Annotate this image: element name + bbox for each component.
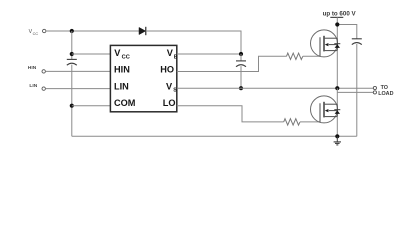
wire LO to gate resistor xyxy=(177,106,284,122)
wire Q2 drain up to VS xyxy=(336,88,338,104)
svg-text:CC: CC xyxy=(33,32,39,36)
wire diode to VB corner xyxy=(146,31,241,54)
svg-text:LIN: LIN xyxy=(114,81,129,91)
junction dot VS switch node xyxy=(335,86,339,90)
resistor R1 high-side gate xyxy=(287,53,303,59)
wire bottom rail xyxy=(72,135,357,137)
wire HIN xyxy=(45,70,110,72)
wire Q1 drain up xyxy=(336,25,338,39)
wire R2 to gate xyxy=(300,121,320,123)
node Vcc label xyxy=(29,29,39,36)
junction dot Vcc rail xyxy=(70,29,74,33)
terminal LOAD xyxy=(373,91,376,94)
svg-text:V: V xyxy=(166,81,173,91)
junction dot ground rail xyxy=(335,134,339,138)
terminal Vcc xyxy=(43,29,46,32)
transistor Q2 low-side MOSFET xyxy=(311,96,341,123)
junction dot C2/VS xyxy=(239,86,243,90)
junction dot 600V xyxy=(335,22,339,26)
svg-text:COM: COM xyxy=(114,98,136,108)
wire LIN xyxy=(45,88,110,90)
wire VB to bootstrap cap xyxy=(240,54,242,61)
wire COM pin stub xyxy=(72,105,110,107)
pin label VCC xyxy=(114,48,130,61)
wire VS rail to load xyxy=(177,87,373,89)
svg-text:V: V xyxy=(167,48,174,58)
svg-text:HIN: HIN xyxy=(28,65,37,71)
power rail bar 600V xyxy=(330,16,343,18)
transistor Q1 high-side MOSFET xyxy=(311,30,341,57)
svg-text:B: B xyxy=(174,54,178,60)
svg-text:LOAD: LOAD xyxy=(378,91,393,97)
svg-text:S: S xyxy=(173,88,177,94)
wire Q2 source down xyxy=(336,117,338,137)
wire cap C2 bottom to VS xyxy=(240,66,242,88)
pin label VB xyxy=(167,48,178,60)
pin label VS xyxy=(166,81,177,93)
resistor R2 low-side gate xyxy=(284,119,300,125)
wire 600V feed xyxy=(337,17,357,38)
wire load lower xyxy=(337,91,373,93)
svg-text:CC: CC xyxy=(122,55,130,61)
capacitor C3 bus xyxy=(352,39,362,45)
IC U1 gate driver box xyxy=(110,45,176,111)
terminal HIN xyxy=(42,70,45,73)
wire cap C1 bottom down to bottom rail xyxy=(71,65,73,137)
wire HO to gate resistor xyxy=(177,56,287,71)
wire R1 to gate xyxy=(303,55,320,57)
svg-text:LIN: LIN xyxy=(29,83,37,89)
svg-text:V: V xyxy=(114,48,121,58)
terminal LIN xyxy=(42,87,45,90)
capacitor C1 Vcc decoupling xyxy=(67,59,77,65)
junction dot VB xyxy=(239,52,243,56)
svg-text:up to 600 V: up to 600 V xyxy=(323,10,357,17)
wire Vcc pin stub xyxy=(72,53,110,55)
ground xyxy=(334,136,341,145)
svg-text:HO: HO xyxy=(160,65,174,75)
wire Q1 source down to VS xyxy=(336,51,338,89)
junction dot COM xyxy=(70,104,74,108)
diode D1 xyxy=(139,27,146,35)
wire C3 bottom to ground rail xyxy=(356,44,358,136)
wire Vcc down to cap xyxy=(71,31,73,59)
svg-text:LO: LO xyxy=(163,98,176,108)
wire VB pin xyxy=(177,53,241,55)
junction dot Vcc pin xyxy=(70,52,74,56)
capacitor C2 bootstrap xyxy=(236,61,246,67)
wire Vcc top rail xyxy=(46,30,139,32)
terminal TO xyxy=(373,86,376,89)
svg-text:HIN: HIN xyxy=(114,65,130,75)
